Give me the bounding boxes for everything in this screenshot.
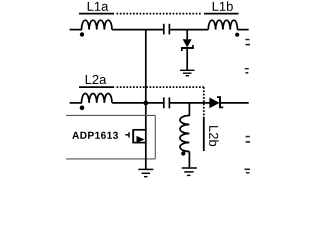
inductor L1b core bar — [204, 13, 239, 15]
wire L2a to capacitor C2 — [112, 102, 163, 104]
wire C2 to diode D2 — [170, 102, 210, 104]
coupling dotted line top (L1a to L1b) — [117, 13, 202, 15]
IC U1 ADP1613 box right edge — [154, 115, 156, 158]
node marks right column pair 3 (cropped cap) — [246, 136, 250, 138]
wire L1a to capacitor C1 — [112, 29, 163, 31]
wire diode D1 anode lead — [186, 30, 188, 40]
inductor L2b winding (vertical) — [180, 116, 189, 152]
ground under L2b — [182, 168, 197, 175]
coupling dotted line bottom horizontal — [117, 86, 205, 88]
wire Q1 drain rail down to ground — [145, 129, 147, 169]
wire L1b to output — [238, 29, 249, 31]
wire middle vertical rail — [145, 30, 147, 131]
inductor L2a label — [86, 75, 107, 84]
transistor Q1 gate bar — [128, 132, 130, 137]
transistor Q1 drain line — [133, 129, 146, 131]
wire bottom-left lead — [70, 102, 82, 104]
inductor L2a core bar — [79, 86, 114, 88]
inductor L2b label (rotated) — [209, 126, 219, 146]
diode D2 (Schottky, right) triangle — [210, 98, 219, 108]
inductor L1a winding — [82, 20, 113, 29]
wire C1 to L1b — [170, 29, 208, 31]
transistor Q1 source line — [133, 142, 146, 144]
diode D2 cathode bar with schottky hooks — [217, 97, 223, 107]
IC U1 ADP1613 box top edge — [66, 114, 155, 116]
phasing dot L1a — [80, 32, 84, 36]
inductor L1b label — [213, 1, 233, 11]
inductor L1a core bar — [79, 13, 114, 15]
IC U1 ADP1613 box bottom edge — [66, 158, 155, 160]
capacitor C1 plate 2 — [168, 24, 170, 35]
phasing dot L2a — [80, 106, 85, 111]
transistor Q1 source arrow — [137, 136, 145, 143]
node marks right column pair 2 (cropped ground) — [245, 68, 249, 69]
wire D1 cathode to ground — [186, 48, 188, 70]
wire L2b to ground — [188, 152, 190, 168]
capacitor C2 plate 1 — [163, 97, 165, 108]
node marks right column pair 1 (cropped cap) — [246, 39, 250, 41]
capacitor C2 plate 2 — [168, 97, 170, 108]
phasing dot L2b — [181, 151, 185, 155]
ground under D1 — [180, 70, 195, 75]
coupling dotted line bottom vertical — [203, 87, 205, 118]
node junction dot on bottom rail — [143, 101, 148, 106]
inductor L1a label — [88, 2, 109, 11]
transistor Q1 channel bar — [132, 129, 134, 143]
diode D1 (Schottky, down) triangle — [183, 40, 191, 47]
ground under Q1 — [138, 169, 153, 176]
wire top-left lead — [70, 29, 82, 31]
phasing dot L1b — [235, 33, 239, 37]
IC U1 label ADP1613 — [72, 132, 118, 139]
node marks right column pair 4 (cropped ground) — [245, 169, 251, 171]
transistor Q1 gate lead — [125, 134, 128, 136]
inductor L1b winding — [208, 20, 237, 29]
inductor L2b core bar — [203, 118, 205, 151]
wire L2b top lead — [188, 103, 190, 116]
wire D2 to output — [220, 102, 249, 104]
diode D1 cathode bar with schottky hooks — [182, 45, 193, 51]
inductor L2a winding — [82, 93, 113, 102]
capacitor C1 plate 1 — [163, 24, 165, 35]
